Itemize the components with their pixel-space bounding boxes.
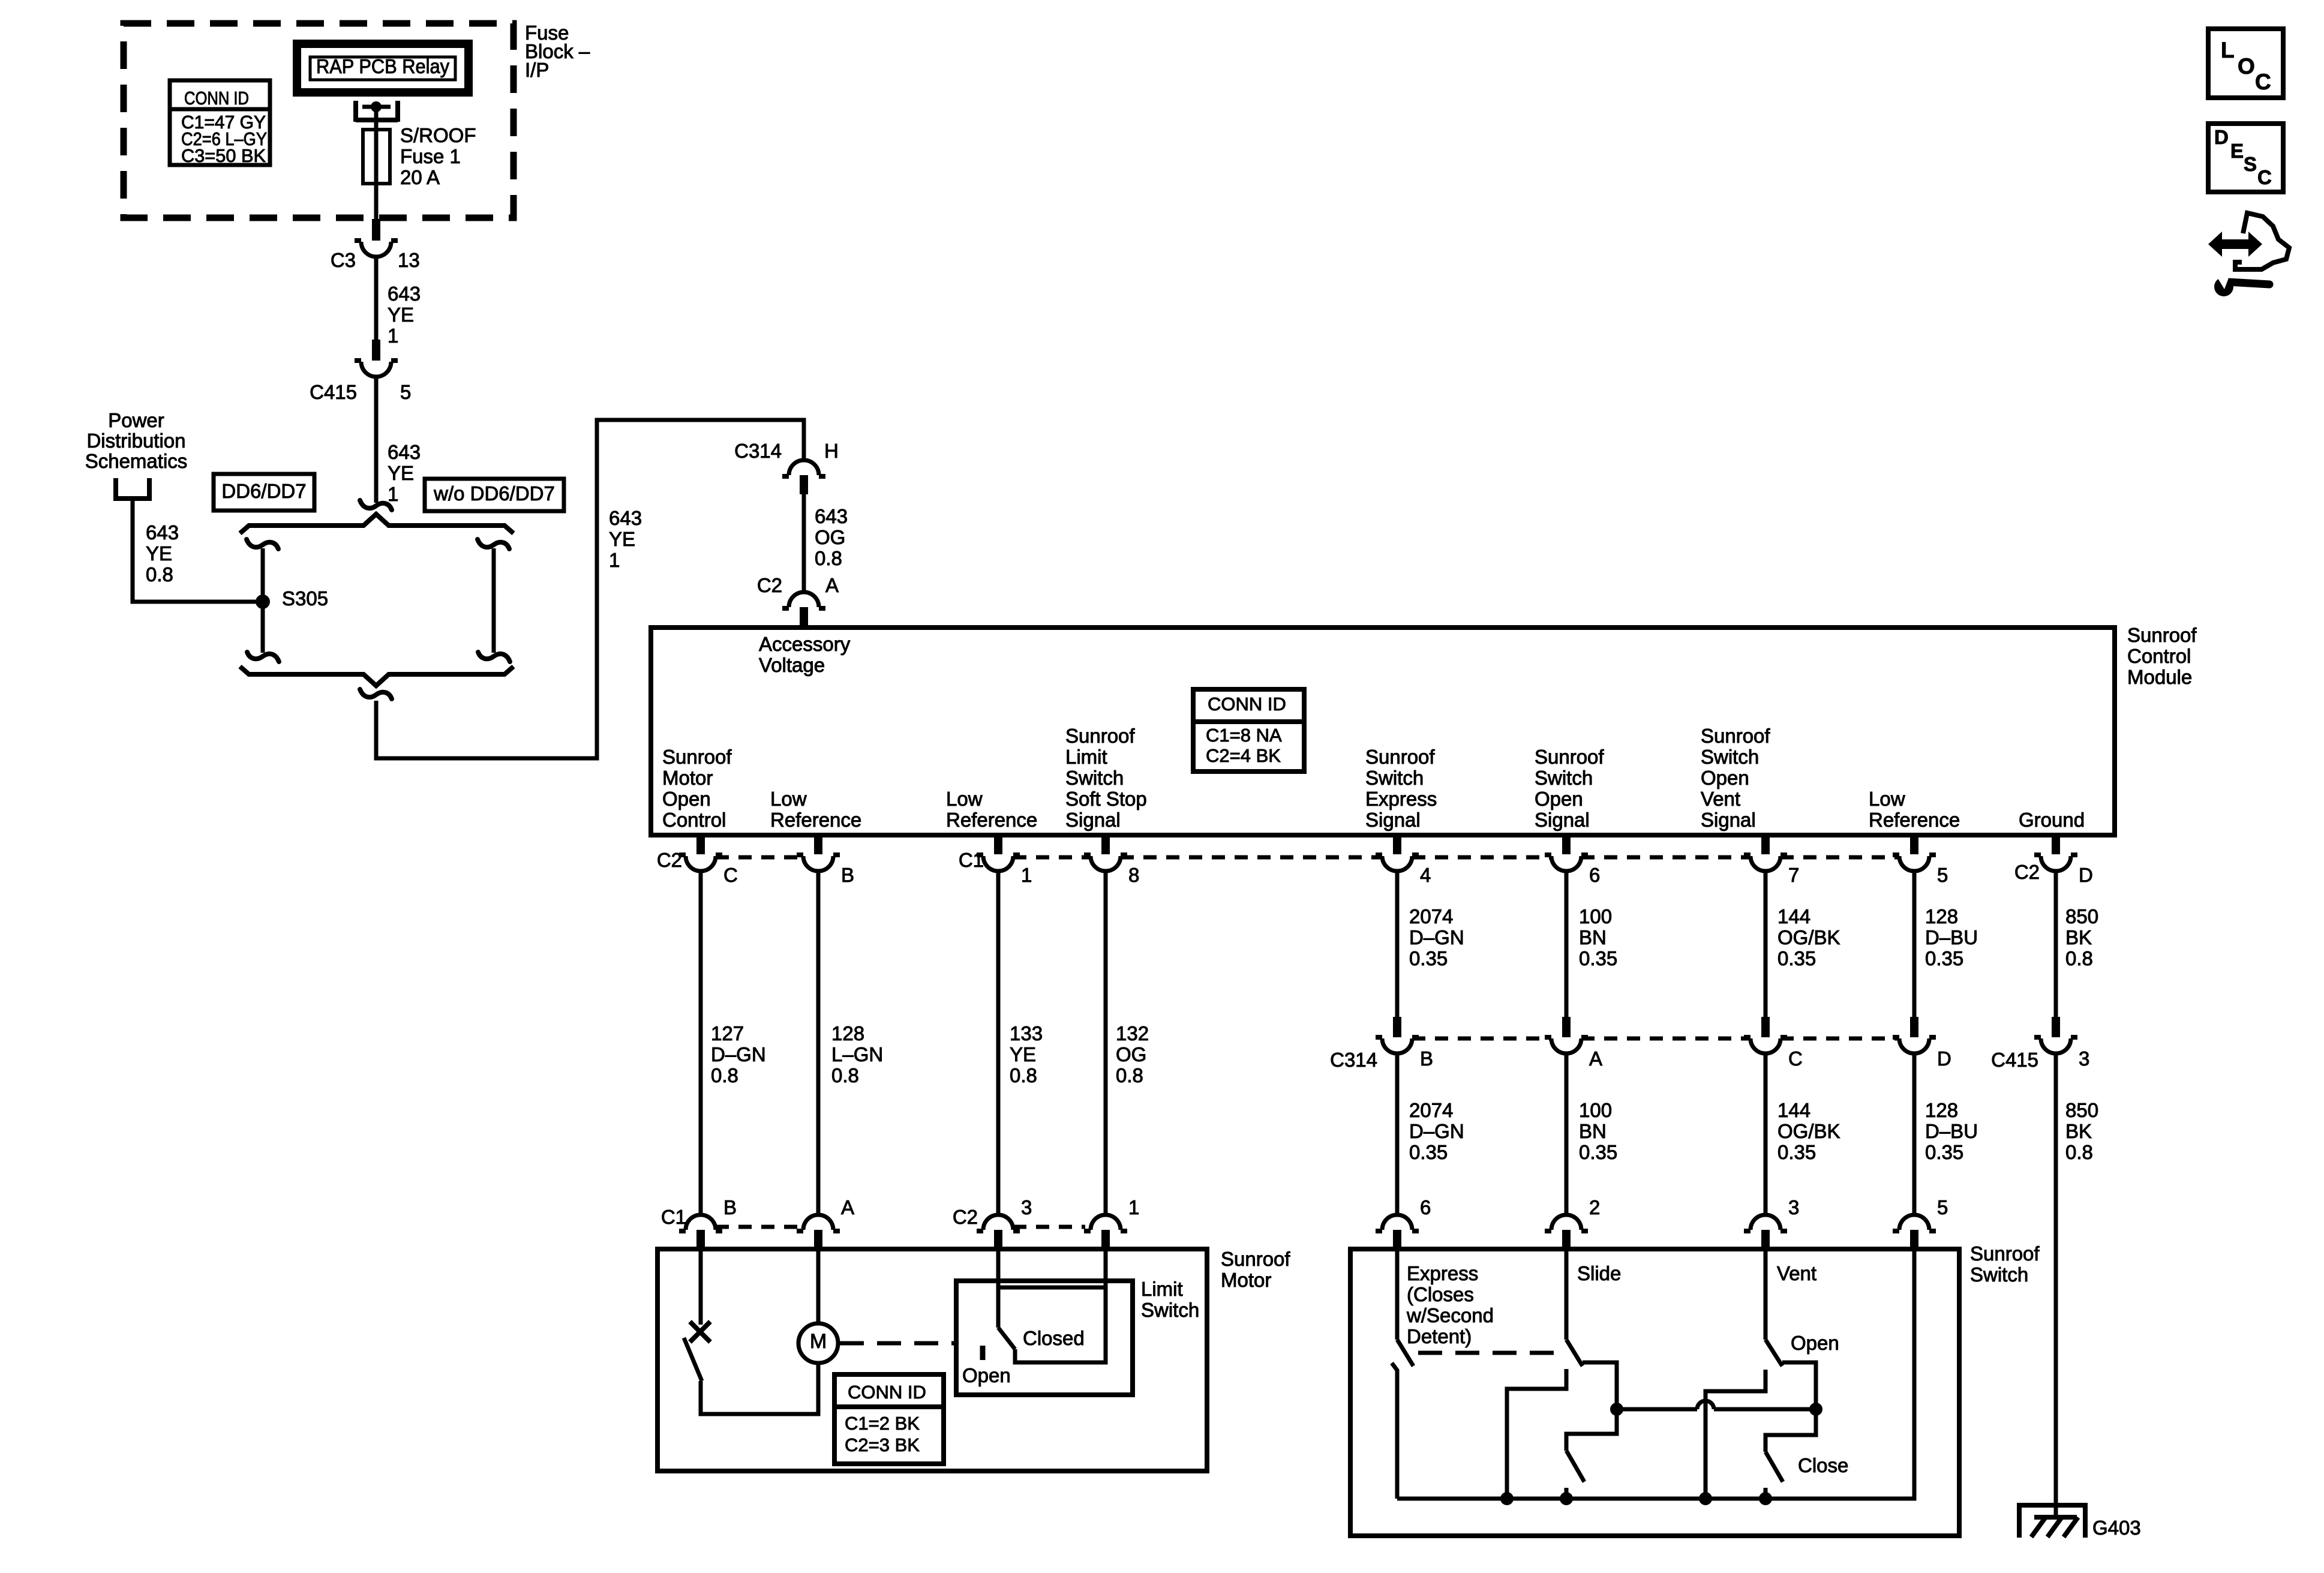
connector C2 pin A (module) <box>789 592 819 607</box>
svg-text:YE: YE <box>609 528 635 550</box>
svg-text:C2: C2 <box>2014 861 2040 883</box>
vent blade to common node <box>1782 1362 1816 1409</box>
wire break symbol below bottom brace <box>360 689 392 699</box>
svg-text:Schematics: Schematics <box>85 450 188 472</box>
svg-text:Vent: Vent <box>1777 1262 1816 1284</box>
svg-text:0.8: 0.8 <box>2065 947 2093 969</box>
svg-text:B: B <box>841 864 854 886</box>
svg-text:850: 850 <box>2065 1099 2098 1121</box>
CONN ID table (sunroof motor) <box>834 1374 944 1464</box>
wire limit switch pin 3 input <box>996 1249 1001 1328</box>
svg-text:Low: Low <box>770 788 807 810</box>
slide switch blade <box>1566 1340 1583 1366</box>
DESC reference box <box>2208 124 2283 192</box>
wire C314 pin x=2943 to sunroof switch <box>1764 1053 1768 1216</box>
module pin 5 connector (stub+cup) <box>1910 835 1918 854</box>
fuse block - I/P dashed outline box <box>124 23 514 218</box>
svg-text:643: 643 <box>146 521 179 544</box>
module pin 7 connector (stub+cup) <box>1761 835 1770 854</box>
svg-text:C3=50 BK: C3=50 BK <box>181 145 266 166</box>
svg-text:Sunroof: Sunroof <box>2127 624 2197 646</box>
svg-text:CONN ID: CONN ID <box>184 88 249 109</box>
svg-text:D: D <box>2214 126 2229 148</box>
wire 643 YE 1 from merge to C314 H <box>376 420 804 758</box>
svg-text:Limit: Limit <box>1141 1278 1183 1300</box>
module pin B connector (stub+cup) <box>814 835 822 854</box>
left option branch wire (with S305) <box>247 539 278 549</box>
label D E S C <box>2214 126 2272 188</box>
svg-text:1: 1 <box>388 325 398 347</box>
adjust icon double arrow <box>2208 232 2262 257</box>
svg-text:D–BU: D–BU <box>1925 1120 1978 1142</box>
svg-text:YE: YE <box>1010 1043 1036 1065</box>
svg-text:Switch: Switch <box>1065 767 1124 789</box>
svg-text:Switch: Switch <box>1141 1299 1199 1321</box>
CONN ID table (fuse block) <box>170 80 270 165</box>
svg-text:850: 850 <box>2065 905 2098 927</box>
wire module pin x=3427 to C314/C415 row <box>2054 871 2058 1018</box>
svg-text:100: 100 <box>1579 1099 1612 1121</box>
dashed connector line (module bottom row) <box>716 855 1899 860</box>
svg-text:1: 1 <box>1128 1196 1139 1218</box>
switch ground bus wire <box>1397 1249 1914 1499</box>
connector C314/C415 pin B (stub+cup) <box>1393 1017 1401 1037</box>
svg-text:D–BU: D–BU <box>1925 926 1978 948</box>
connector into box pin 2 (cup+stub) <box>1551 1215 1581 1230</box>
svg-text:Power: Power <box>108 409 164 431</box>
svg-text:144: 144 <box>1777 905 1810 927</box>
limit switch blade <box>998 1328 1015 1349</box>
connector into box pin 3 (cup+stub) <box>983 1215 1013 1230</box>
sunroof switch box <box>1350 1249 1959 1536</box>
svg-text:0.8: 0.8 <box>146 563 173 586</box>
relay K: RAP PCB Relay box <box>297 44 469 92</box>
svg-text:0.35: 0.35 <box>1409 1141 1448 1163</box>
svg-text:Signal: Signal <box>1535 809 1590 831</box>
connector into box pin A (cup+stub) <box>803 1215 833 1230</box>
slide lower blade <box>1566 1451 1584 1482</box>
svg-text:Detent): Detent) <box>1407 1325 1472 1347</box>
svg-text:Accessory: Accessory <box>759 633 851 655</box>
option merge bottom brace <box>240 667 514 686</box>
svg-text:Sunroof: Sunroof <box>1701 725 1770 747</box>
svg-text:D: D <box>2079 864 2093 886</box>
wire module pin x=2611 to C314/C415 row <box>1565 871 1569 1018</box>
vent common node (dot) <box>1809 1403 1822 1416</box>
svg-text:M: M <box>810 1330 827 1353</box>
svg-text:0.35: 0.35 <box>1409 947 1448 969</box>
option label DD6/DD7 box <box>214 474 314 511</box>
wire module pin x=2943 to C314/C415 row <box>1764 871 1768 1018</box>
svg-text:C1: C1 <box>959 849 984 871</box>
wire module pin x=3191 to C314/C415 row <box>1912 871 1917 1018</box>
svg-text:7: 7 <box>1788 864 1799 886</box>
fuse F1 S/ROOF 20A symbol <box>363 130 390 184</box>
svg-text:Limit: Limit <box>1065 746 1107 768</box>
svg-text:132: 132 <box>1116 1022 1149 1044</box>
svg-text:Reference: Reference <box>770 809 861 831</box>
svg-text:w/Second: w/Second <box>1406 1304 1494 1326</box>
dashed connector line (C314 row) <box>1412 1037 1899 1041</box>
svg-text:Motor: Motor <box>1221 1269 1271 1291</box>
connector C314/C415 pin A (stub+cup) <box>1562 1017 1571 1037</box>
svg-text:Switch: Switch <box>1701 746 1759 768</box>
svg-text:Switch: Switch <box>1970 1263 2028 1286</box>
svg-text:643: 643 <box>388 283 421 305</box>
svg-text:Open: Open <box>962 1364 1011 1386</box>
bus junction dot 3 <box>1699 1492 1712 1505</box>
connector C314 pin H <box>789 460 819 475</box>
svg-text:128: 128 <box>1925 1099 1958 1121</box>
connector C314/C415 pin D (stub+cup) <box>1910 1017 1918 1037</box>
vent switch blade <box>1765 1340 1782 1366</box>
svg-text:OG/BK: OG/BK <box>1777 1120 1840 1142</box>
svg-text:B: B <box>723 1196 737 1218</box>
wire motor pin B to switch contact <box>699 1249 703 1325</box>
adjust icon wrench <box>2228 282 2269 284</box>
svg-text:OG: OG <box>815 526 845 548</box>
adjust icon component outline <box>2235 213 2289 269</box>
slide lower contact <box>1565 1488 1569 1499</box>
svg-text:144: 144 <box>1777 1099 1810 1121</box>
svg-text:C314: C314 <box>1330 1049 1377 1071</box>
bus junction dot 2 <box>1560 1492 1573 1505</box>
svg-text:C: C <box>1788 1047 1803 1070</box>
svg-text:BN: BN <box>1579 926 1607 948</box>
svg-text:G403: G403 <box>2092 1517 2141 1539</box>
svg-text:643: 643 <box>815 505 848 527</box>
connector into box pin B (cup+stub) <box>686 1215 716 1230</box>
splice S305 (dot) <box>256 595 270 609</box>
svg-text:Sunroof: Sunroof <box>1970 1242 2040 1265</box>
svg-text:Low: Low <box>1869 788 1905 810</box>
svg-text:128: 128 <box>1925 905 1958 927</box>
svg-text:S/ROOF: S/ROOF <box>400 124 476 146</box>
svg-text:Distribution: Distribution <box>86 430 185 452</box>
dashed connector line (sunroof motor row) <box>716 1225 1085 1229</box>
svg-text:A: A <box>825 574 839 596</box>
slide common node (dot) <box>1610 1403 1623 1416</box>
svg-text:C2: C2 <box>953 1206 978 1228</box>
dashed mechanical link M to limit switch <box>840 1341 955 1346</box>
wire circuit 133 YE 0.8 <box>996 871 1001 1216</box>
motor switch blade <box>684 1338 702 1381</box>
svg-text:20 A: 20 A <box>400 166 440 188</box>
svg-text:8: 8 <box>1128 864 1139 886</box>
svg-text:Express: Express <box>1365 788 1437 810</box>
svg-text:BK: BK <box>2065 926 2092 948</box>
svg-text:Sunroof: Sunroof <box>662 746 732 768</box>
wire slide common to vent common (with hop) <box>1617 1407 1697 1412</box>
svg-text:Open: Open <box>1791 1332 1839 1354</box>
svg-text:C415: C415 <box>310 381 357 403</box>
svg-text:C3: C3 <box>331 249 356 271</box>
svg-text:C: C <box>723 864 738 886</box>
svg-text:Sunroof: Sunroof <box>1065 725 1135 747</box>
slide upper contact <box>1507 1369 1566 1499</box>
svg-text:I/P: I/P <box>525 59 549 81</box>
svg-text:Signal: Signal <box>1065 809 1121 831</box>
sunroof motor box <box>657 1249 1207 1471</box>
svg-text:w/o DD6/DD7: w/o DD6/DD7 <box>433 482 555 505</box>
svg-text:Express: Express <box>1407 1262 1478 1284</box>
wire vent pin 3 input <box>1764 1249 1768 1340</box>
wire circuit 132 OG 0.8 <box>1104 871 1108 1216</box>
svg-text:A: A <box>1589 1047 1602 1070</box>
svg-text:643: 643 <box>388 441 421 463</box>
svg-text:Open: Open <box>1535 788 1583 810</box>
svg-text:OG: OG <box>1116 1043 1146 1065</box>
svg-text:0.35: 0.35 <box>1925 1141 1963 1163</box>
svg-text:Module: Module <box>2127 666 2192 688</box>
svg-text:Sunroof: Sunroof <box>1365 746 1435 768</box>
wire break symbol above top brace <box>360 500 392 510</box>
svg-text:C2=3 BK: C2=3 BK <box>845 1434 920 1455</box>
express switch blade <box>1397 1340 1413 1366</box>
limit switch open contact tick <box>980 1346 986 1360</box>
svg-text:0.8: 0.8 <box>831 1064 859 1086</box>
wire 643 OG 0.8 (C314 to module) <box>802 494 806 592</box>
wire relay to fuse <box>374 107 379 130</box>
svg-text:Switch: Switch <box>1535 767 1593 789</box>
svg-text:Close: Close <box>1798 1454 1848 1476</box>
svg-text:0.8: 0.8 <box>1116 1064 1143 1086</box>
option label w/o DD6/DD7 box <box>425 479 564 511</box>
svg-text:C1=8 NA: C1=8 NA <box>1206 725 1282 746</box>
connector C3 pin 13 (stub+cup) <box>372 219 380 241</box>
svg-text:0.35: 0.35 <box>1777 1141 1816 1163</box>
svg-text:DD6/DD7: DD6/DD7 <box>221 480 306 502</box>
svg-text:0.8: 0.8 <box>1010 1064 1037 1086</box>
svg-text:D: D <box>1937 1047 1951 1070</box>
svg-text:13: 13 <box>398 249 420 271</box>
bus junction dot 4 <box>1759 1492 1772 1505</box>
motor M circle <box>798 1323 838 1363</box>
wire 643 YE 1 (C3 to C415) <box>374 257 379 341</box>
svg-text:C1=2 BK: C1=2 BK <box>845 1413 920 1434</box>
svg-text:643: 643 <box>609 507 642 529</box>
connector C314/C415 pin C (stub+cup) <box>1761 1017 1770 1037</box>
connector into box pin 1 (cup+stub) <box>1091 1215 1121 1230</box>
svg-text:A: A <box>841 1196 854 1218</box>
svg-text:BK: BK <box>2065 1120 2092 1142</box>
svg-text:CONN ID: CONN ID <box>848 1382 926 1403</box>
wire 850 BK 0.8 to G403 <box>2054 1053 2058 1518</box>
svg-text:133: 133 <box>1010 1022 1043 1044</box>
svg-text:B: B <box>1420 1047 1433 1070</box>
wire 643 YE 1 (C415 to option split) <box>374 377 379 503</box>
svg-text:5: 5 <box>1937 864 1948 886</box>
svg-text:O: O <box>2238 54 2255 79</box>
svg-text:C2: C2 <box>757 574 782 596</box>
LOC reference box <box>2208 29 2283 98</box>
svg-text:6: 6 <box>1589 864 1600 886</box>
svg-text:OG/BK: OG/BK <box>1777 926 1840 948</box>
svg-text:Open: Open <box>1701 767 1749 789</box>
vent close blade <box>1765 1452 1783 1482</box>
svg-text:Ground: Ground <box>2019 809 2085 831</box>
svg-text:Sunroof: Sunroof <box>1221 1248 1290 1270</box>
express lower contact wire <box>1392 1363 1397 1499</box>
label L O C <box>2221 38 2271 94</box>
svg-text:2: 2 <box>1589 1196 1600 1218</box>
bus junction dot 1 <box>1500 1492 1514 1505</box>
wire C314 pin x=3191 to sunroof switch <box>1912 1053 1917 1216</box>
svg-text:6: 6 <box>1420 1196 1431 1218</box>
wire circuit 128 L-GN 0.8 <box>816 871 821 1216</box>
vent open contact <box>1706 1370 1765 1499</box>
slide lower contact arm <box>1566 1409 1617 1451</box>
svg-text:5: 5 <box>400 381 411 403</box>
connector into box pin 5 (cup+stub) <box>1899 1215 1929 1230</box>
svg-text:1: 1 <box>388 483 398 505</box>
svg-text:D–GN: D–GN <box>1409 1120 1464 1142</box>
svg-text:Open: Open <box>662 788 711 810</box>
wire slide pin 2 input <box>1565 1249 1569 1340</box>
svg-text:3: 3 <box>1788 1196 1799 1218</box>
vent close contact <box>1764 1488 1768 1499</box>
svg-text:BN: BN <box>1579 1120 1607 1142</box>
svg-text:0.35: 0.35 <box>1925 947 1963 969</box>
limit switch box <box>956 1281 1133 1395</box>
wire fuse to connector C3 <box>374 184 379 221</box>
sunroof control module box <box>651 628 2115 835</box>
wire express pin 6 input <box>1395 1249 1400 1340</box>
CONN ID table (module) <box>1193 689 1304 772</box>
svg-text:3: 3 <box>1021 1196 1032 1218</box>
svg-text:E: E <box>2230 140 2244 162</box>
svg-text:128: 128 <box>831 1022 864 1044</box>
svg-text:0.35: 0.35 <box>1579 947 1617 969</box>
option split top brace <box>240 514 514 533</box>
relay output node (dot) <box>371 101 382 112</box>
svg-text:L: L <box>2221 38 2235 62</box>
svg-text:H: H <box>824 440 839 462</box>
slide blade to common node <box>1583 1362 1617 1409</box>
svg-text:0.8: 0.8 <box>815 547 842 569</box>
off-page connector (power distribution) <box>116 478 149 499</box>
wire C314 pin x=2329 to sunroof switch <box>1395 1053 1400 1216</box>
relay pin bracket <box>356 101 398 122</box>
svg-text:C2: C2 <box>657 849 682 871</box>
svg-text:L–GN: L–GN <box>831 1043 883 1065</box>
wire C314 pin x=2611 to sunroof switch <box>1565 1053 1569 1216</box>
svg-text:S: S <box>2244 153 2257 175</box>
svg-text:1: 1 <box>1021 864 1032 886</box>
svg-text:C: C <box>2255 70 2271 94</box>
svg-text:Signal: Signal <box>1701 809 1756 831</box>
svg-text:3: 3 <box>2079 1047 2089 1070</box>
svg-text:0.8: 0.8 <box>2065 1141 2093 1163</box>
module pin 1 connector (stub+cup) <box>994 835 1002 854</box>
svg-text:C1: C1 <box>661 1206 686 1228</box>
svg-text:D–GN: D–GN <box>1409 926 1464 948</box>
svg-text:CONN ID: CONN ID <box>1208 694 1286 715</box>
svg-text:100: 100 <box>1579 905 1612 927</box>
svg-text:Reference: Reference <box>1869 809 1960 831</box>
module pin D connector (stub+cup) <box>2052 835 2060 854</box>
ground G403 symbol <box>2019 1505 2085 1538</box>
svg-text:YE: YE <box>388 304 414 326</box>
dashed mechanical link express-slide <box>1418 1351 1560 1355</box>
wire blade to motor M <box>701 1363 818 1414</box>
svg-text:Switch: Switch <box>1365 767 1424 789</box>
svg-text:Soft Stop: Soft Stop <box>1065 788 1147 810</box>
connector into box pin 6 (cup+stub) <box>1382 1215 1412 1230</box>
svg-text:D–GN: D–GN <box>711 1043 766 1065</box>
svg-text:YE: YE <box>388 462 414 484</box>
wire module pin x=2329 to C314/C415 row <box>1395 871 1400 1018</box>
svg-text:5: 5 <box>1937 1196 1948 1218</box>
svg-text:C: C <box>2257 166 2272 188</box>
svg-text:RAP PCB Relay: RAP PCB Relay <box>316 55 449 77</box>
svg-text:Voltage: Voltage <box>759 654 825 676</box>
svg-text:C2=4 BK: C2=4 BK <box>1206 745 1281 766</box>
svg-text:0.35: 0.35 <box>1777 947 1816 969</box>
svg-text:127: 127 <box>711 1022 744 1044</box>
svg-text:Control: Control <box>662 809 726 831</box>
module pin 6 connector (stub+cup) <box>1562 835 1571 854</box>
svg-text:Fuse 1: Fuse 1 <box>400 145 461 167</box>
svg-text:0.35: 0.35 <box>1579 1141 1617 1163</box>
svg-text:0.8: 0.8 <box>711 1064 738 1086</box>
module pin 8 connector (stub+cup) <box>1101 835 1110 854</box>
svg-text:S305: S305 <box>282 587 328 610</box>
svg-text:Signal: Signal <box>1365 809 1421 831</box>
svg-text:Closed: Closed <box>1023 1327 1085 1349</box>
svg-text:2074: 2074 <box>1409 1099 1453 1121</box>
connector into box pin 3 (cup+stub) <box>1750 1215 1780 1230</box>
svg-text:Control: Control <box>2127 645 2191 667</box>
svg-text:C314: C314 <box>734 440 782 462</box>
svg-text:Sunroof: Sunroof <box>1535 746 1604 768</box>
connector C415 pin 5 (stub+cup) <box>372 340 380 361</box>
connector C314/C415 pin 3 (stub+cup) <box>2052 1017 2060 1037</box>
module pin C connector (stub+cup) <box>696 835 705 854</box>
svg-text:(Closes: (Closes <box>1407 1283 1474 1305</box>
svg-text:2074: 2074 <box>1409 905 1453 927</box>
svg-text:YE: YE <box>146 542 172 565</box>
svg-text:Motor: Motor <box>662 767 713 789</box>
svg-text:Slide: Slide <box>1577 1262 1621 1284</box>
right option branch wire <box>478 539 509 549</box>
vent close contact arm <box>1765 1409 1816 1452</box>
wire circuit 127 D-GN 0.8 <box>699 871 703 1216</box>
svg-text:Vent: Vent <box>1701 788 1740 810</box>
svg-text:4: 4 <box>1420 864 1431 886</box>
limit switch closed contact outline <box>997 1286 1106 1290</box>
svg-text:Reference: Reference <box>946 809 1037 831</box>
svg-text:C415: C415 <box>1991 1049 2038 1071</box>
wire 643 YE 0.8 from power distribution to S305 <box>133 499 258 602</box>
svg-text:Low: Low <box>946 788 983 810</box>
svg-text:1: 1 <box>609 549 620 571</box>
wire motor pin A to M <box>816 1249 821 1323</box>
switch open-circuit X mark <box>690 1322 710 1342</box>
module pin 4 connector (stub+cup) <box>1393 835 1401 854</box>
